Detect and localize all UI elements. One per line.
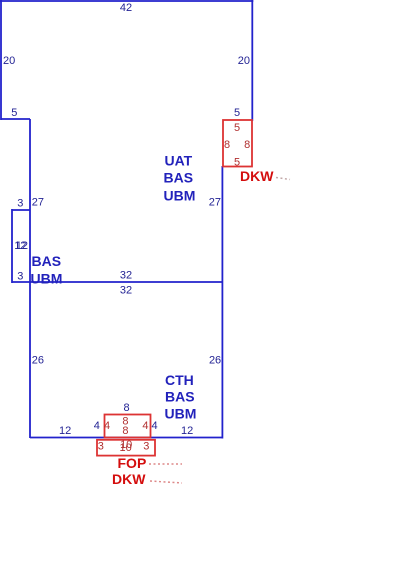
svg-text:BAS: BAS [32,253,62,269]
svg-text:3: 3 [143,441,149,453]
svg-text:CTH: CTH [165,372,194,388]
wall bay left (12) [11,209,13,283]
svg-text:4: 4 [104,420,110,432]
red box DKW top-right [223,120,252,167]
red leader dots DKW top [276,178,290,180]
svg-text:12: 12 [181,425,193,437]
svg-text:20: 20 [238,55,250,67]
svg-text:27: 27 [209,197,221,209]
svg-text:BAS: BAS [165,389,195,405]
wall bay top (3) [12,209,30,211]
svg-text:BAS: BAS [164,170,194,186]
svg-text:26: 26 [209,355,221,367]
svg-text:27: 27 [32,197,44,209]
wall step left (5) [1,118,30,120]
svg-text:42: 42 [120,2,132,14]
svg-text:12: 12 [59,425,71,437]
red leader dots DKW bottom [150,481,182,483]
svg-text:20: 20 [3,55,15,67]
red box porch upper [105,415,151,438]
svg-text:5: 5 [11,107,17,119]
svg-text:8: 8 [224,139,230,151]
wall top (42) [0,0,253,2]
wall middle horizontal (32) [12,281,223,283]
svg-text:32: 32 [120,270,132,282]
svg-text:4: 4 [142,420,148,432]
wall left upper (20) [0,0,2,120]
svg-text:4: 4 [152,420,158,432]
svg-text:4: 4 [94,420,100,432]
wall right lower (27+26) [221,166,223,439]
svg-text:8: 8 [122,425,128,437]
svg-text:UBM: UBM [31,271,63,287]
svg-text:26: 26 [32,355,44,367]
red leader dots FOP [149,463,182,465]
svg-text:5: 5 [234,122,240,134]
svg-text:DKW: DKW [240,168,274,184]
svg-text:10: 10 [120,439,132,451]
svg-text:DKW: DKW [112,471,146,487]
wall left main vertical (27+26) [29,119,31,438]
red box porch lower (FOP) [97,440,155,456]
wall right upper (20) [251,0,253,121]
svg-text:12: 12 [16,240,28,252]
wall bottom (32) [30,437,223,439]
svg-text:UAT: UAT [165,153,193,169]
svg-text:UBM: UBM [165,406,197,422]
svg-text:5: 5 [234,157,240,169]
svg-text:3: 3 [98,441,104,453]
svg-text:3: 3 [17,271,23,283]
svg-text:8: 8 [244,139,250,151]
svg-text:32: 32 [120,285,132,297]
svg-text:FOP: FOP [118,455,147,471]
svg-text:UBM: UBM [164,188,196,204]
svg-text:3: 3 [17,198,23,210]
svg-text:5: 5 [234,107,240,119]
svg-text:8: 8 [124,402,130,414]
